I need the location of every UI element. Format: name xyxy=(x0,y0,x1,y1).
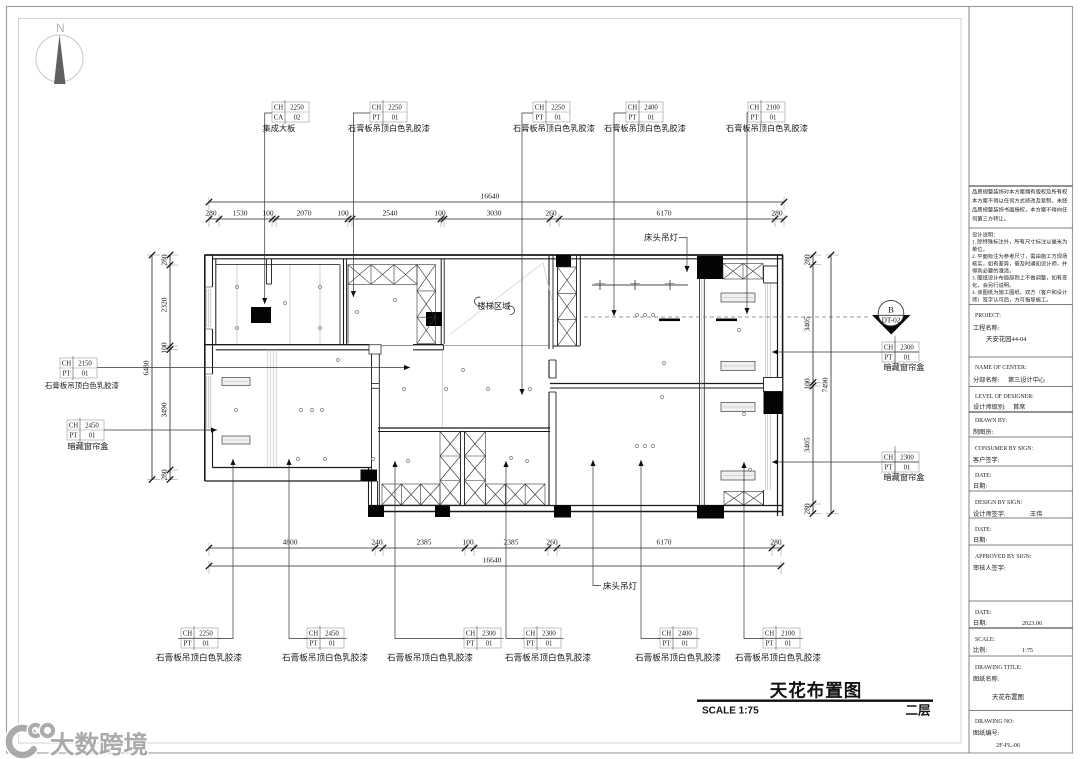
svg-text:CH: CH xyxy=(765,631,775,638)
svg-text:01: 01 xyxy=(89,433,96,440)
svg-text:280: 280 xyxy=(803,254,812,266)
svg-text:师）签字认可后，方可指导施工。: 师）签字认可后，方可指导施工。 xyxy=(972,295,1051,303)
svg-text:100: 100 xyxy=(434,209,446,218)
svg-text:01: 01 xyxy=(555,115,562,122)
svg-text:设计说明：: 设计说明： xyxy=(972,231,999,239)
svg-text:DATE:: DATE: xyxy=(975,473,992,479)
svg-text:2540: 2540 xyxy=(383,209,398,218)
svg-text:PT: PT xyxy=(63,371,72,378)
svg-text:01: 01 xyxy=(486,641,493,648)
svg-text:CH: CH xyxy=(662,631,672,638)
svg-text:DATE:: DATE: xyxy=(975,527,992,533)
svg-text:01: 01 xyxy=(904,465,911,472)
svg-text:100: 100 xyxy=(160,342,169,354)
svg-text:CA: CA xyxy=(274,115,284,122)
svg-text:PT: PT xyxy=(751,115,760,122)
svg-text:PT: PT xyxy=(310,641,319,648)
svg-text:2023.06: 2023.06 xyxy=(1022,620,1042,627)
svg-text:石膏板吊顶白色乳胶漆: 石膏板吊顶白色乳胶漆 xyxy=(513,123,595,133)
svg-text:PT: PT xyxy=(629,115,638,122)
svg-text:PROJECT:: PROJECT: xyxy=(975,313,1001,319)
svg-text:大数跨境: 大数跨境 xyxy=(50,730,148,759)
svg-text:品质规整装饰书面授权，本方案不得向任: 品质规整装饰书面授权，本方案不得向任 xyxy=(972,206,1068,214)
svg-text:二层: 二层 xyxy=(905,704,931,718)
svg-text:工程名称:: 工程名称: xyxy=(973,324,1000,332)
svg-text:床头吊灯: 床头吊灯 xyxy=(644,233,679,243)
svg-text:PT: PT xyxy=(885,355,894,362)
svg-text:DRAWING NO:: DRAWING NO: xyxy=(975,719,1014,725)
svg-text:3490: 3490 xyxy=(160,402,169,417)
svg-text:暗藏窗帘盒: 暗藏窗帘盒 xyxy=(884,362,925,372)
svg-text:CH: CH xyxy=(274,105,284,112)
svg-text:CH: CH xyxy=(535,105,545,112)
svg-text:2400: 2400 xyxy=(644,105,658,112)
svg-text:01: 01 xyxy=(648,115,655,122)
svg-text:01: 01 xyxy=(770,115,777,122)
svg-text:化，会另行说明。: 化，会另行说明。 xyxy=(972,281,1014,289)
svg-text:2250: 2250 xyxy=(388,105,402,112)
svg-text:2320: 2320 xyxy=(160,297,169,312)
svg-text:PT: PT xyxy=(885,465,894,472)
svg-text:100: 100 xyxy=(337,209,349,218)
svg-text:280: 280 xyxy=(160,254,169,266)
svg-text:LEVEL OF DESIGNER:: LEVEL OF DESIGNER: xyxy=(975,394,1034,400)
svg-text:280: 280 xyxy=(205,209,217,218)
svg-text:石膏板吊顶白色乳胶漆: 石膏板吊顶白色乳胶漆 xyxy=(156,652,242,663)
svg-text:01: 01 xyxy=(904,355,911,362)
svg-text:2F-FL-06: 2F-FL-06 xyxy=(996,742,1020,749)
svg-text:2300: 2300 xyxy=(900,345,914,352)
svg-text:天安花园44-04: 天安花园44-04 xyxy=(986,334,1027,343)
svg-text:设计师级别:: 设计师级别: xyxy=(973,403,1006,411)
svg-text:PT: PT xyxy=(663,641,672,648)
svg-text:DRAWN BY:: DRAWN BY: xyxy=(975,418,1007,424)
svg-text:2070: 2070 xyxy=(297,209,312,218)
svg-text:2100: 2100 xyxy=(781,631,795,638)
svg-text:CH: CH xyxy=(466,631,476,638)
svg-text:7490: 7490 xyxy=(821,377,830,392)
svg-text:PT: PT xyxy=(527,641,536,648)
svg-text:日期:: 日期: xyxy=(973,619,987,627)
svg-text:PT: PT xyxy=(536,115,545,122)
svg-text:2385: 2385 xyxy=(417,538,432,547)
svg-text:图纸编号:: 图纸编号: xyxy=(973,729,1000,737)
svg-text:CH: CH xyxy=(750,105,760,112)
svg-text:2250: 2250 xyxy=(199,631,213,638)
svg-text:2150: 2150 xyxy=(78,361,92,368)
svg-text:6170: 6170 xyxy=(657,538,672,547)
svg-text:CH: CH xyxy=(526,631,536,638)
svg-text:2300: 2300 xyxy=(542,631,556,638)
svg-text:3405: 3405 xyxy=(803,437,812,452)
svg-text:16640: 16640 xyxy=(483,556,502,565)
svg-text:100: 100 xyxy=(462,538,474,547)
svg-text:240: 240 xyxy=(371,538,383,547)
svg-text:王伟: 王伟 xyxy=(1030,510,1042,518)
svg-text:制图员:: 制图员: xyxy=(973,428,994,436)
svg-text:石膏板吊顶白色乳胶漆: 石膏板吊顶白色乳胶漆 xyxy=(726,123,808,133)
svg-text:天花布置图: 天花布置图 xyxy=(770,681,863,701)
svg-text:100: 100 xyxy=(262,209,274,218)
svg-text:何第三方转让。: 何第三方转让。 xyxy=(972,215,1009,223)
svg-text:PT: PT xyxy=(766,641,775,648)
svg-text:天花布置图: 天花布置图 xyxy=(992,692,1024,701)
svg-text:CH: CH xyxy=(628,105,638,112)
svg-text:DATE:: DATE: xyxy=(975,610,992,616)
svg-text:DT-02: DT-02 xyxy=(882,315,901,324)
svg-text:260: 260 xyxy=(546,538,558,547)
svg-text:单位。: 单位。 xyxy=(972,245,988,253)
svg-text:2400: 2400 xyxy=(678,631,692,638)
svg-text:2250: 2250 xyxy=(290,105,304,112)
svg-text:N: N xyxy=(56,21,65,35)
svg-text:CH: CH xyxy=(372,105,382,112)
svg-text:16640: 16640 xyxy=(481,192,500,201)
svg-text:设计师签字:: 设计师签字: xyxy=(973,510,1006,518)
svg-text:CH: CH xyxy=(62,361,72,368)
svg-text:石膏板吊顶白色乳胶漆: 石膏板吊顶白色乳胶漆 xyxy=(505,652,591,663)
svg-text:2. 平面标注为参考尺寸，需由施工方现场: 2. 平面标注为参考尺寸，需由施工方现场 xyxy=(972,252,1067,260)
svg-text:4800: 4800 xyxy=(283,538,298,547)
svg-text:CH: CH xyxy=(309,631,319,638)
svg-text:分部名称:: 分部名称: xyxy=(973,376,1000,384)
svg-text:280: 280 xyxy=(160,469,169,481)
svg-text:3. 图纸设计布局原则上不做调整，如有变: 3. 图纸设计布局原则上不做调整，如有变 xyxy=(972,274,1068,282)
svg-text:2300: 2300 xyxy=(900,455,914,462)
svg-text:2450: 2450 xyxy=(85,423,99,430)
svg-text:石膏板吊顶白色乳胶漆: 石膏板吊顶白色乳胶漆 xyxy=(348,123,430,133)
svg-text:280: 280 xyxy=(771,209,783,218)
svg-text:2450: 2450 xyxy=(325,631,339,638)
svg-text:石膏板吊顶白色乳胶漆: 石膏板吊顶白色乳胶漆 xyxy=(735,652,821,663)
svg-text:3405: 3405 xyxy=(803,316,812,331)
svg-text:01: 01 xyxy=(392,115,399,122)
svg-text:石膏板吊顶白色乳胶漆: 石膏板吊顶白色乳胶漆 xyxy=(282,652,368,663)
svg-text:2100: 2100 xyxy=(766,105,780,112)
svg-text:01: 01 xyxy=(82,371,89,378)
svg-text:PT: PT xyxy=(184,641,193,648)
svg-text:PT: PT xyxy=(70,433,79,440)
svg-text:100: 100 xyxy=(803,378,812,390)
svg-text:6480: 6480 xyxy=(142,360,151,375)
svg-text:PT: PT xyxy=(467,641,476,648)
svg-text:日期:: 日期: xyxy=(973,536,987,544)
svg-text:本方案不得以任何方式修改及复制。未经: 本方案不得以任何方式修改及复制。未经 xyxy=(972,197,1068,205)
svg-text:第三设计中心: 第三设计中心 xyxy=(1008,376,1045,384)
svg-text:2250: 2250 xyxy=(551,105,565,112)
svg-text:B: B xyxy=(888,305,894,315)
svg-text:石膏板吊顶白色乳胶漆: 石膏板吊顶白色乳胶漆 xyxy=(635,652,721,663)
svg-text:6170: 6170 xyxy=(657,209,672,218)
svg-text:280: 280 xyxy=(770,538,782,547)
svg-text:CH: CH xyxy=(884,345,894,352)
svg-text:SCALE 1:75: SCALE 1:75 xyxy=(702,706,759,717)
svg-text:石膏板吊顶白色乳胶漆: 石膏板吊顶白色乳胶漆 xyxy=(45,381,120,390)
svg-text:SCALE:: SCALE: xyxy=(975,637,995,643)
svg-text:01: 01 xyxy=(203,641,210,648)
svg-text:CONSUMER BY SIGN:: CONSUMER BY SIGN: xyxy=(975,446,1033,452)
svg-text:比例:: 比例: xyxy=(973,646,987,654)
svg-text:01: 01 xyxy=(546,641,553,648)
svg-text:品质规整装饰对本方案拥有版权及所有权: 品质规整装饰对本方案拥有版权及所有权 xyxy=(972,188,1068,196)
svg-text:CH: CH xyxy=(69,423,79,430)
svg-text:1530: 1530 xyxy=(233,209,248,218)
svg-text:APPROVED BY SIGN:: APPROVED BY SIGN: xyxy=(975,554,1032,560)
svg-text:审核人签字:: 审核人签字: xyxy=(973,564,1006,572)
svg-text:1. 除特殊标注外，所有尺寸标注以毫米为: 1. 除特殊标注外，所有尺寸标注以毫米为 xyxy=(972,238,1067,246)
svg-text:图纸名称:: 图纸名称: xyxy=(973,675,1000,683)
svg-text:石膏板吊顶白色乳胶漆: 石膏板吊顶白色乳胶漆 xyxy=(604,123,686,133)
svg-text:280: 280 xyxy=(803,503,812,515)
svg-text:NAME OF CENTER:: NAME OF CENTER: xyxy=(975,365,1027,371)
svg-text:暗藏窗帘盒: 暗藏窗帘盒 xyxy=(68,441,109,451)
svg-text:首席: 首席 xyxy=(1013,403,1025,411)
svg-text:楼梯区域: 楼梯区域 xyxy=(477,301,510,311)
svg-text:01: 01 xyxy=(682,641,689,648)
svg-text:暗藏窗帘盒: 暗藏窗帘盒 xyxy=(884,472,925,482)
svg-text:集成大板: 集成大板 xyxy=(263,123,296,133)
svg-text:01: 01 xyxy=(785,641,792,648)
svg-text:DESIGN BY SIGN:: DESIGN BY SIGN: xyxy=(975,500,1023,506)
svg-text:客户签字:: 客户签字: xyxy=(973,456,1000,464)
svg-text:4. 该图纸为施工图纸，双方（客户和设计: 4. 该图纸为施工图纸，双方（客户和设计 xyxy=(972,288,1068,296)
svg-text:2300: 2300 xyxy=(482,631,496,638)
svg-text:得到必要的澄清。: 得到必要的澄清。 xyxy=(972,267,1014,275)
svg-text:CH: CH xyxy=(183,631,193,638)
svg-text:石膏板吊顶白色乳胶漆: 石膏板吊顶白色乳胶漆 xyxy=(387,652,473,663)
svg-text:01: 01 xyxy=(329,641,336,648)
svg-text:02: 02 xyxy=(294,115,301,122)
svg-text:日期:: 日期: xyxy=(973,482,987,490)
svg-text:260: 260 xyxy=(545,209,557,218)
svg-text:DRAWING TITLE:: DRAWING TITLE: xyxy=(975,665,1022,671)
svg-text:3030: 3030 xyxy=(487,209,502,218)
svg-text:床头吊灯: 床头吊灯 xyxy=(603,581,638,591)
svg-text:PT: PT xyxy=(373,115,382,122)
svg-text:核实，如有差异，需及时通知设计师，并: 核实，如有差异，需及时通知设计师，并 xyxy=(972,259,1068,267)
svg-text:1:75: 1:75 xyxy=(1022,647,1033,654)
svg-text:CH: CH xyxy=(884,455,894,462)
